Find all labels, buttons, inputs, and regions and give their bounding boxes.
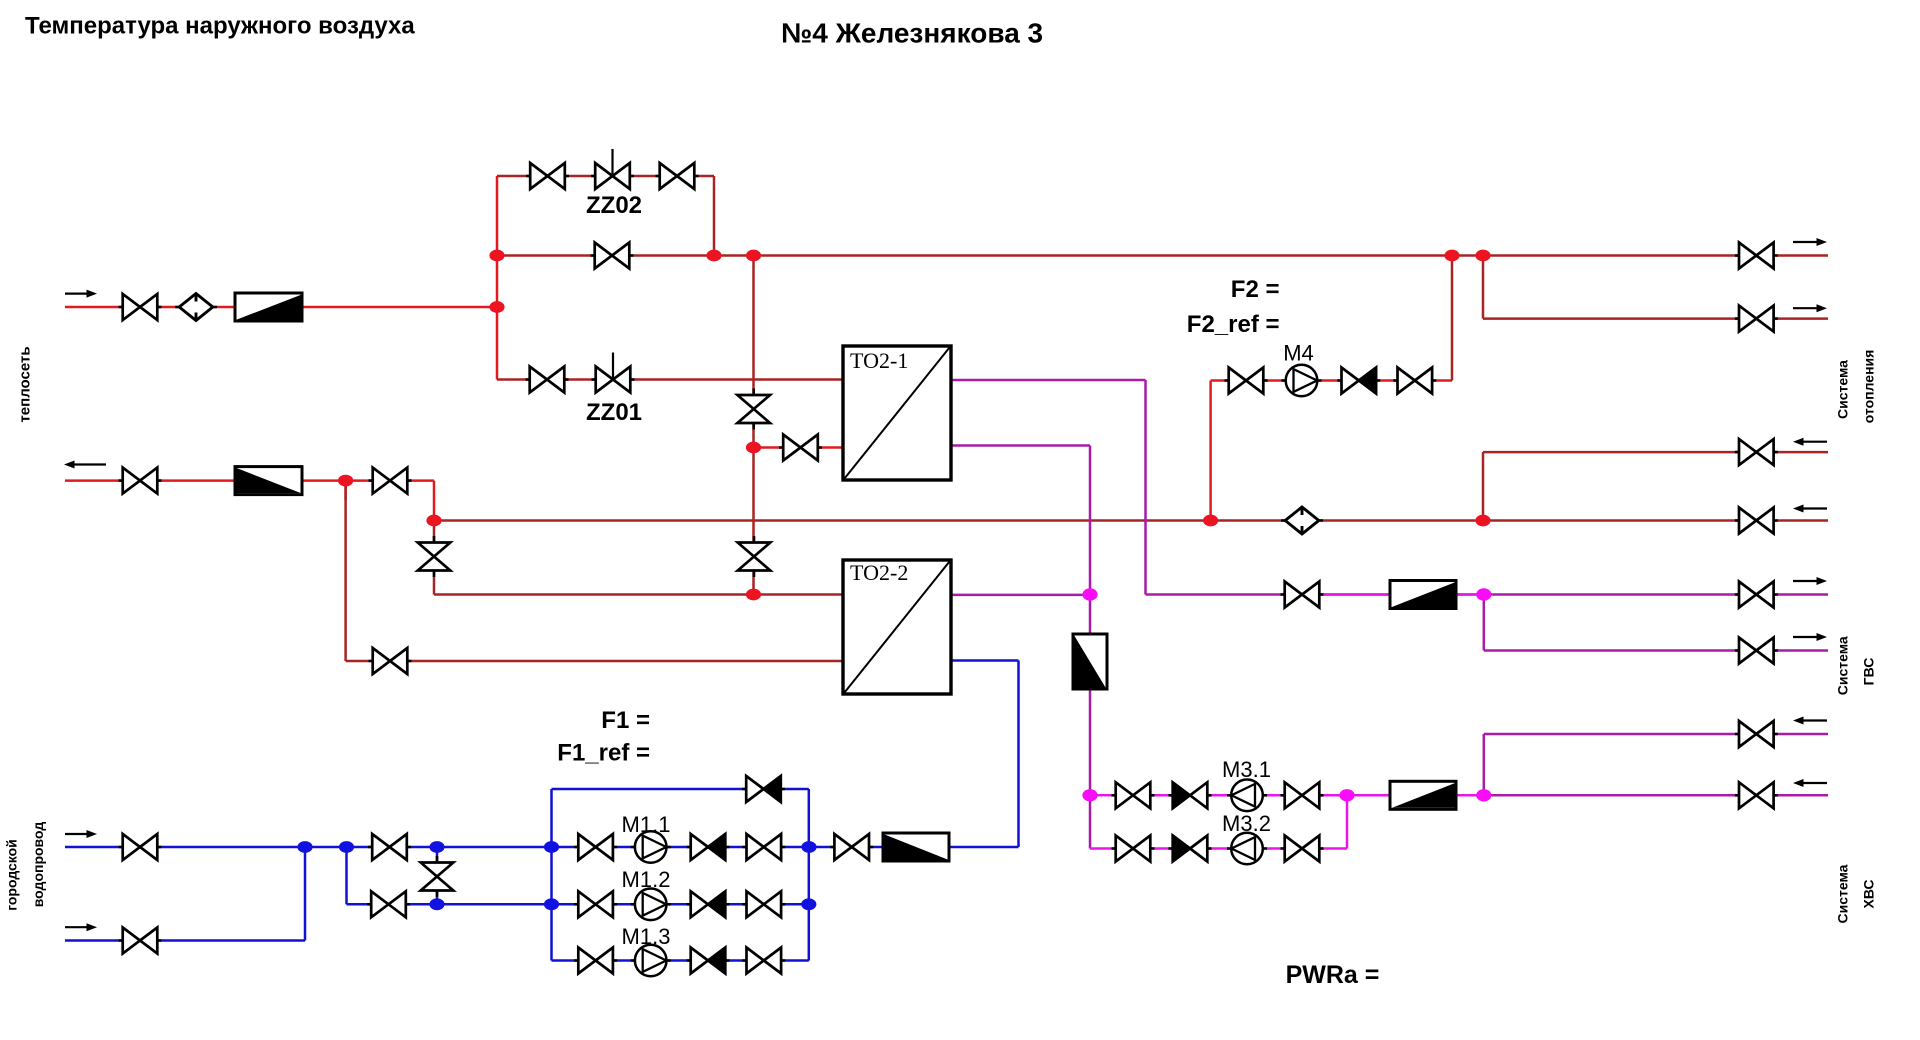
svg-text:отопления: отопления <box>1861 350 1877 424</box>
svg-text:Температура наружного воздуха: Температура наружного воздуха <box>25 13 415 40</box>
svg-text:ZZ01: ZZ01 <box>586 399 642 426</box>
svg-text:водопровод: водопровод <box>30 822 46 908</box>
svg-text:M1.1: M1.1 <box>622 812 671 837</box>
svg-text:ХВС: ХВС <box>1861 879 1877 908</box>
svg-text:F2 =: F2 = <box>1231 276 1280 303</box>
svg-text:Система: Система <box>1835 360 1851 419</box>
svg-text:F1 =: F1 = <box>601 707 650 734</box>
svg-text:PWRa =: PWRa = <box>1286 961 1380 989</box>
svg-text:теплосеть: теплосеть <box>17 346 34 422</box>
svg-text:ТО2-1: ТО2-1 <box>850 348 908 373</box>
svg-text:Система: Система <box>1835 636 1851 695</box>
svg-text:городской: городской <box>4 839 20 911</box>
svg-text:ГВС: ГВС <box>1861 658 1877 686</box>
svg-text:M1.3: M1.3 <box>622 924 671 949</box>
svg-text:Система: Система <box>1835 864 1851 923</box>
svg-text:M1.2: M1.2 <box>622 867 671 892</box>
svg-text:F1_ref =: F1_ref = <box>557 740 650 767</box>
svg-text:F2_ref =: F2_ref = <box>1187 311 1280 338</box>
svg-text:№4 Железнякова 3: №4 Железнякова 3 <box>781 18 1043 49</box>
svg-text:ТО2-2: ТО2-2 <box>850 560 908 585</box>
svg-text:ZZ02: ZZ02 <box>586 192 642 219</box>
svg-text:M3.2: M3.2 <box>1222 811 1271 836</box>
svg-text:M3.1: M3.1 <box>1222 757 1271 782</box>
svg-text:M4: M4 <box>1283 341 1314 366</box>
